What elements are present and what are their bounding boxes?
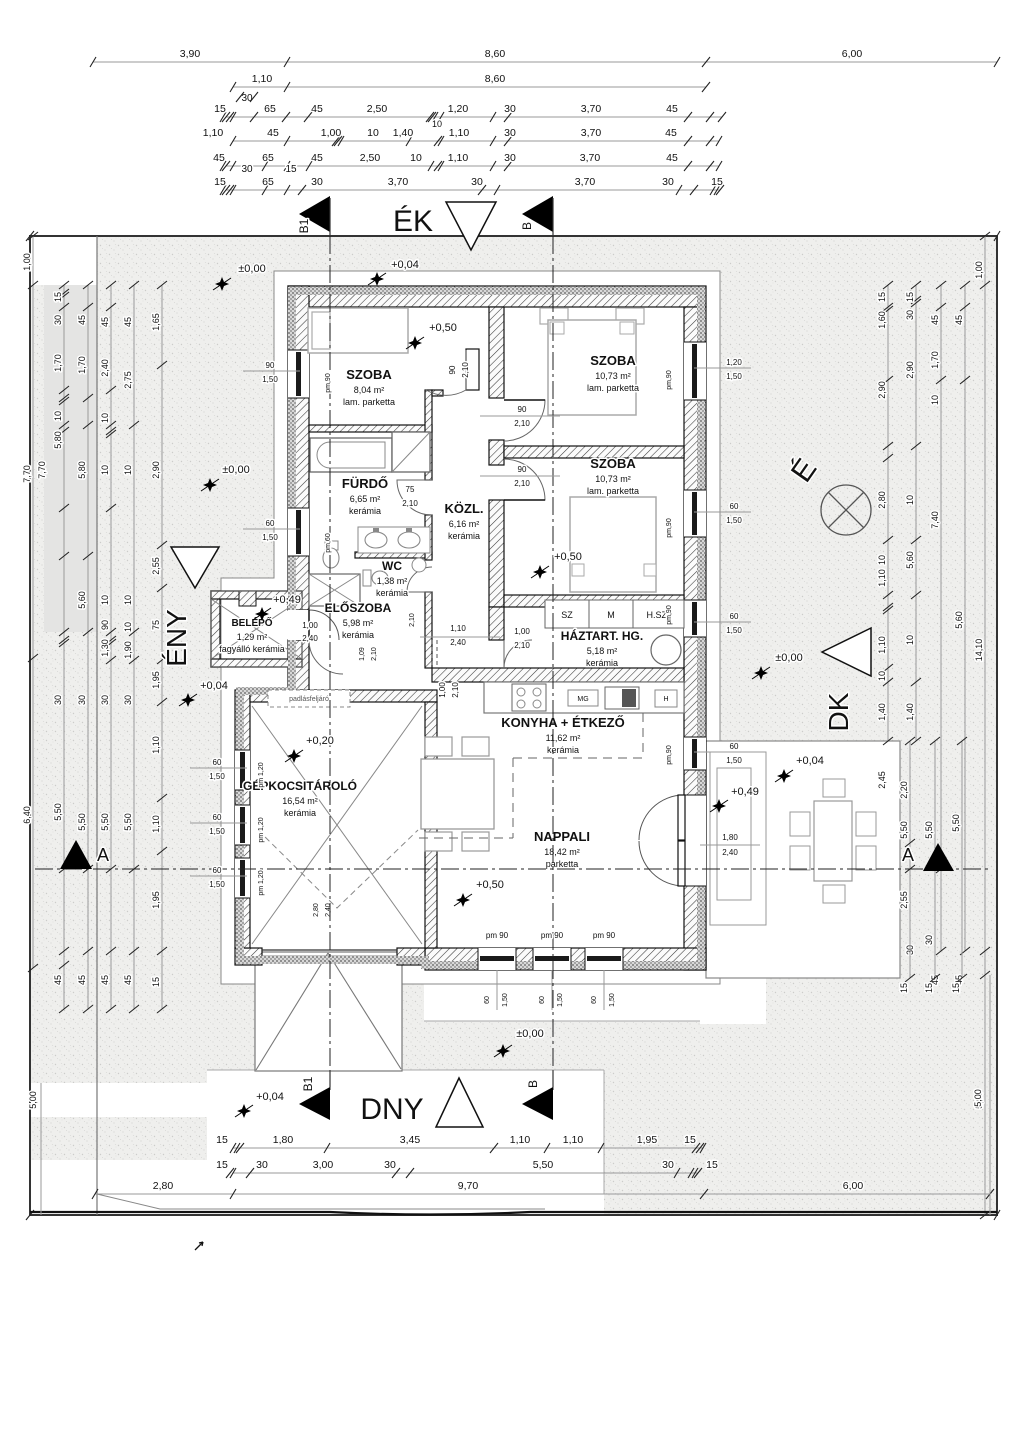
svg-text:65: 65 [262, 176, 274, 188]
MG box [568, 690, 598, 706]
window nappali 3 [585, 948, 623, 970]
svg-text:45: 45 [77, 975, 87, 985]
svg-text:8,60: 8,60 [485, 48, 506, 60]
svg-text:60: 60 [730, 612, 739, 621]
svg-text:2,50: 2,50 [367, 103, 388, 115]
boundary corner ticks [26, 231, 34, 241]
svg-text:2,10: 2,10 [461, 362, 470, 378]
garage cross [252, 706, 422, 944]
svg-text:pm 1,20: pm 1,20 [258, 762, 265, 787]
svg-text:10: 10 [100, 465, 110, 475]
svg-text:10: 10 [123, 595, 133, 605]
svg-text:DNY: DNY [360, 1093, 423, 1126]
svg-text:45: 45 [954, 315, 964, 325]
wall top exterior [288, 286, 706, 307]
terrace steps [710, 752, 766, 925]
svg-text:15: 15 [53, 292, 63, 302]
dining table [421, 759, 494, 829]
washbasins [358, 527, 430, 553]
svg-text:15: 15 [216, 1159, 228, 1171]
svg-text:15: 15 [214, 176, 226, 188]
svg-text:45: 45 [666, 152, 678, 164]
window nappali 2 [533, 948, 571, 970]
svg-text:A: A [97, 845, 109, 865]
svg-text:kerámia: kerámia [342, 630, 374, 640]
svg-text:15: 15 [214, 103, 226, 115]
svg-text:60: 60 [730, 502, 739, 511]
svg-text:45: 45 [665, 127, 677, 139]
svg-text:60: 60 [730, 742, 739, 751]
svg-text:15: 15 [899, 983, 909, 993]
svg-text:30: 30 [53, 695, 63, 705]
wall szoba2-szoba3 [504, 446, 684, 458]
svg-text:kerámia: kerámia [547, 745, 579, 755]
svg-text:+0,50: +0,50 [476, 879, 504, 891]
svg-text:±0,00: ±0,00 [516, 1028, 543, 1040]
flag B bottom [522, 1087, 553, 1120]
svg-text:8,04 m²: 8,04 m² [354, 385, 385, 395]
svg-text:90: 90 [448, 365, 457, 374]
svg-text:10: 10 [100, 595, 110, 605]
svg-text:2,40: 2,40 [325, 903, 332, 917]
site ground (stippled) [30, 236, 997, 1215]
svg-text:5,60: 5,60 [905, 551, 915, 569]
wall szoba3-haztart [504, 595, 684, 607]
shower [392, 432, 430, 472]
svg-text:1,70: 1,70 [77, 356, 87, 374]
svg-text:3,70: 3,70 [581, 127, 602, 139]
svg-text:2,40: 2,40 [302, 634, 318, 643]
terrace white area [706, 741, 900, 978]
section line A-A horizontal [35, 868, 990, 870]
svg-text:2,10: 2,10 [409, 613, 416, 627]
svg-text:B: B [526, 1080, 540, 1088]
ENY triangle [171, 547, 219, 588]
svg-text:30: 30 [241, 164, 253, 175]
svg-text:5,50: 5,50 [123, 813, 133, 831]
flag B1 bottom [299, 1087, 330, 1120]
svg-text:3,70: 3,70 [575, 176, 596, 188]
svg-text:2,80: 2,80 [153, 1180, 174, 1192]
svg-text:45: 45 [267, 127, 279, 139]
terrace dimension columns [909, 741, 911, 978]
svg-text:30: 30 [384, 1159, 396, 1171]
svg-text:pm,90: pm,90 [666, 605, 673, 625]
svg-text:+0,20: +0,20 [306, 735, 334, 747]
window garage 2 [235, 805, 250, 845]
svg-text:pm 90: pm 90 [541, 931, 564, 940]
svg-text:1,70: 1,70 [53, 354, 63, 372]
svg-text:±0,00: ±0,00 [222, 464, 249, 476]
svg-text:3,70: 3,70 [581, 103, 602, 115]
svg-text:8,60: 8,60 [485, 73, 506, 85]
svg-text:1,95: 1,95 [637, 1134, 658, 1146]
window garage 1 [235, 750, 250, 790]
svg-text:ELŐSZOBA: ELŐSZOBA [325, 600, 392, 615]
window szoba3 right 1 [684, 490, 706, 537]
svg-text:+0,50: +0,50 [554, 551, 582, 563]
svg-text:lam. parketta: lam. parketta [343, 397, 395, 407]
wall furdo-wc [355, 552, 432, 558]
svg-text:SZOBA: SZOBA [590, 353, 636, 368]
svg-text:+0,50: +0,50 [429, 322, 457, 334]
svg-text:2,90: 2,90 [877, 381, 887, 399]
svg-text:5,18 m²: 5,18 m² [587, 646, 618, 656]
svg-text:7,70: 7,70 [22, 465, 32, 483]
door szoba2 [504, 400, 545, 441]
svg-text:2,10: 2,10 [514, 479, 530, 488]
svg-text:90: 90 [518, 405, 527, 414]
svg-text:kerámia: kerámia [349, 506, 381, 516]
svg-text:6,00: 6,00 [843, 1180, 864, 1192]
svg-text:2,90: 2,90 [905, 361, 915, 379]
svg-text:60: 60 [213, 758, 222, 767]
svg-text:10: 10 [100, 413, 110, 423]
kitchen counter [484, 682, 684, 713]
terrace door opening [684, 795, 706, 886]
window nappali 1 [478, 948, 516, 970]
svg-text:2,55: 2,55 [151, 557, 161, 575]
terrace table [814, 801, 852, 881]
driveway outline [255, 952, 402, 1071]
svg-text:1,00: 1,00 [438, 682, 447, 698]
svg-text:2,80: 2,80 [313, 903, 320, 917]
svg-text:pm 90: pm 90 [593, 931, 616, 940]
svg-text:15: 15 [216, 1134, 228, 1146]
window dim labels left [243, 370, 300, 372]
svg-text:SZOBA: SZOBA [346, 367, 392, 382]
svg-text:15: 15 [877, 292, 887, 302]
svg-text:2,10: 2,10 [451, 682, 460, 698]
svg-text:pm,60: pm,60 [325, 533, 332, 553]
svg-text:15: 15 [924, 983, 934, 993]
svg-text:1,65: 1,65 [151, 313, 161, 331]
svg-text:30: 30 [905, 310, 915, 320]
belepo wall left [211, 591, 220, 667]
roof overhang outline / building white background [221, 271, 720, 984]
svg-text:45: 45 [123, 975, 133, 985]
wall left below entry door [288, 640, 309, 690]
svg-text:M: M [607, 610, 615, 620]
svg-text:1,00: 1,00 [302, 621, 318, 630]
wall bottom exterior living [425, 948, 706, 970]
svg-text:pm 1,20: pm 1,20 [258, 870, 265, 895]
closet X eloszoba [309, 574, 360, 606]
svg-text:parketta: parketta [546, 859, 579, 869]
wall left exterior upper [288, 286, 309, 610]
svg-text:SZ: SZ [561, 610, 573, 620]
padlasfeljaro [268, 690, 350, 707]
svg-text:ÉNY: ÉNY [161, 609, 192, 667]
svg-text:1,40: 1,40 [877, 703, 887, 721]
svg-text:pm,90: pm,90 [666, 518, 673, 538]
svg-text:90: 90 [518, 465, 527, 474]
wall garage top [250, 690, 437, 702]
svg-text:1,95: 1,95 [151, 891, 161, 909]
svg-text:30: 30 [256, 1159, 268, 1171]
svg-text:75: 75 [406, 485, 415, 494]
svg-text:5,98 m²: 5,98 m² [343, 618, 374, 628]
wall kitchen top [432, 668, 684, 682]
svg-text:B: B [520, 222, 534, 230]
wall szoba1-furdo [309, 425, 432, 432]
svg-text:10: 10 [367, 127, 379, 139]
left dimension columns [32, 236, 34, 968]
svg-text:18,42 m²: 18,42 m² [544, 847, 580, 857]
svg-text:7,40: 7,40 [930, 511, 940, 529]
wall stub szoba1 door [432, 390, 443, 396]
svg-text:11,62 m²: 11,62 m² [546, 733, 581, 743]
svg-text:5,80: 5,80 [77, 461, 87, 479]
svg-text:6,00: 6,00 [842, 48, 863, 60]
svg-text:30: 30 [100, 695, 110, 705]
svg-text:30: 30 [311, 176, 323, 188]
small north tick bottom-left [195, 1242, 203, 1250]
washing machine [651, 635, 681, 665]
belepo steps X [211, 599, 302, 659]
svg-text:1,50: 1,50 [726, 372, 742, 381]
svg-text:NAPPALI: NAPPALI [534, 829, 590, 844]
stove [512, 684, 546, 711]
svg-text:+0,04: +0,04 [796, 755, 824, 767]
DK triangle [822, 628, 871, 676]
svg-text:2,20: 2,20 [899, 781, 909, 799]
svg-text:1,40: 1,40 [905, 703, 915, 721]
A section left [60, 840, 92, 869]
svg-text:SZOBA: SZOBA [590, 456, 636, 471]
svg-text:KÖZL.: KÖZL. [445, 501, 484, 516]
svg-text:2,45: 2,45 [877, 771, 887, 789]
section line B1 vertical (over furniture) [329, 236, 331, 1087]
svg-text:1,10: 1,10 [252, 73, 273, 85]
svg-text:±0,00: ±0,00 [238, 263, 265, 275]
window szoba2 right [684, 342, 706, 400]
svg-text:6,16 m²: 6,16 m² [449, 519, 480, 529]
insulation band on exterior walls [240, 291, 701, 965]
window szoba1 left [288, 350, 309, 398]
bed szoba2 [540, 308, 568, 324]
section line B vertical (over furniture) [552, 236, 554, 1087]
door furdo [397, 480, 432, 515]
bed szoba1 [308, 308, 408, 353]
svg-text:16,54 m²: 16,54 m² [282, 796, 318, 806]
sink [605, 687, 639, 709]
svg-text:9,70: 9,70 [458, 1180, 479, 1192]
ground line bottom [30, 1212, 997, 1215]
svg-text:1,50: 1,50 [726, 516, 742, 525]
E compass [821, 485, 871, 535]
svg-text:10: 10 [432, 119, 442, 129]
svg-text:+0,49: +0,49 [731, 786, 759, 798]
wall bottom garage left pier [235, 948, 262, 965]
svg-text:pm,90: pm,90 [325, 373, 332, 393]
wall bottom garage right pier [397, 948, 425, 965]
svg-text:1,95: 1,95 [151, 671, 161, 689]
svg-text:pm,90: pm,90 [666, 370, 673, 390]
svg-text:30: 30 [924, 935, 934, 945]
kitchen zone dashed [419, 713, 643, 838]
svg-text:pm,90: pm,90 [666, 745, 673, 765]
window kitchen right [684, 737, 706, 770]
svg-text:60: 60 [213, 813, 222, 822]
svg-text:BELÉPŐ: BELÉPŐ [231, 616, 272, 629]
section line B vertical [552, 236, 554, 1090]
svg-text:5,50: 5,50 [533, 1159, 554, 1171]
svg-text:30: 30 [504, 127, 516, 139]
bottom dimension rows [233, 1147, 703, 1149]
svg-text:10,73 m²: 10,73 m² [595, 474, 631, 484]
svg-text:60: 60 [539, 996, 546, 1004]
svg-text:5,50: 5,50 [77, 813, 87, 831]
svg-text:30: 30 [504, 152, 516, 164]
svg-text:padlásfeljáró: padlásfeljáró [289, 696, 329, 703]
svg-text:1,00: 1,00 [321, 127, 342, 139]
svg-text:1,10: 1,10 [450, 624, 466, 633]
svg-text:3,45: 3,45 [400, 1134, 421, 1146]
svg-text:1,20: 1,20 [448, 103, 469, 115]
svg-text:1,80: 1,80 [722, 833, 738, 842]
svg-text:1,50: 1,50 [502, 993, 509, 1007]
svg-text:6,65 m²: 6,65 m² [350, 494, 381, 504]
svg-text:1,70: 1,70 [930, 351, 940, 369]
svg-text:MG: MG [577, 696, 588, 703]
site boundary [30, 236, 997, 1215]
svg-text:5,00: 5,00 [973, 1089, 983, 1107]
left setback gray band [44, 285, 97, 632]
bed szoba3 [570, 497, 656, 592]
svg-text:B1: B1 [301, 1076, 315, 1091]
svg-text:90: 90 [266, 361, 275, 370]
svg-text:+0,04: +0,04 [200, 680, 228, 692]
svg-text:1,00: 1,00 [514, 627, 530, 636]
svg-text:65: 65 [264, 103, 276, 115]
svg-text:1,00: 1,00 [974, 261, 984, 279]
svg-text:kerámia: kerámia [284, 808, 316, 818]
svg-text:2,80: 2,80 [877, 491, 887, 509]
svg-text:pm 90: pm 90 [486, 931, 509, 940]
svg-text:60: 60 [213, 866, 222, 875]
svg-text:15: 15 [684, 1134, 696, 1146]
svg-text:+0,04: +0,04 [256, 1091, 284, 1103]
svg-text:1,50: 1,50 [262, 533, 278, 542]
wall corridor left mid [425, 515, 432, 560]
section line A-A horizontal (over furniture) [35, 868, 990, 870]
svg-text:lam. parketta: lam. parketta [587, 486, 639, 496]
svg-text:60: 60 [591, 996, 598, 1004]
wall corridor left lower [425, 592, 432, 668]
belepo dark block [239, 591, 256, 606]
svg-text:2,75: 2,75 [123, 371, 133, 389]
svg-text:45: 45 [53, 975, 63, 985]
toilet wc [363, 570, 371, 586]
svg-text:30: 30 [241, 93, 253, 104]
svg-text:10: 10 [53, 411, 63, 421]
svg-text:10: 10 [410, 152, 422, 164]
white cutouts [30, 236, 97, 285]
svg-text:1,09: 1,09 [359, 647, 366, 661]
svg-text:WC: WC [382, 559, 402, 573]
svg-text:1,10: 1,10 [449, 127, 470, 139]
svg-text:1,38 m²: 1,38 m² [377, 576, 408, 586]
door szoba1 [466, 349, 479, 390]
svg-text:1,50: 1,50 [262, 375, 278, 384]
wall corridor right mid [489, 440, 504, 465]
svg-text:45: 45 [311, 152, 323, 164]
svg-text:2,90: 2,90 [151, 461, 161, 479]
svg-text:60: 60 [484, 996, 491, 1004]
svg-text:1,60: 1,60 [877, 311, 887, 329]
svg-text:3,00: 3,00 [313, 1159, 334, 1171]
svg-text:kerámia: kerámia [448, 531, 480, 541]
svg-text:5,50: 5,50 [924, 821, 934, 839]
svg-text:kerámia: kerámia [586, 658, 618, 668]
wall right exterior [684, 307, 706, 970]
svg-text:B1: B1 [297, 218, 311, 233]
section line B1 vertical [329, 236, 331, 1090]
entry door opening [288, 610, 309, 640]
svg-text:ÉK: ÉK [393, 205, 433, 238]
svg-text:10: 10 [905, 495, 915, 505]
svg-text:1,40: 1,40 [393, 127, 414, 139]
svg-text:1,10: 1,10 [877, 636, 887, 654]
top dimension chain rows [93, 61, 997, 63]
svg-text:1,50: 1,50 [209, 827, 225, 836]
svg-text:10: 10 [877, 555, 887, 565]
svg-text:1,30: 1,30 [100, 639, 110, 657]
wall corridor left upper [425, 390, 432, 480]
svg-text:1,10: 1,10 [563, 1134, 584, 1146]
svg-text:1,10: 1,10 [151, 736, 161, 754]
svg-text:kerámia: kerámia [376, 588, 408, 598]
window dim labels right [694, 367, 751, 369]
svg-text:fagyálló kerámia: fagyálló kerámia [219, 644, 285, 654]
sz/m/hsz boxes [545, 600, 589, 628]
svg-text:5,60: 5,60 [954, 611, 964, 629]
svg-text:FÜRDŐ: FÜRDŐ [342, 476, 388, 491]
svg-text:1,80: 1,80 [273, 1134, 294, 1146]
svg-text:30: 30 [504, 103, 516, 115]
svg-text:45: 45 [311, 103, 323, 115]
svg-text:2,40: 2,40 [450, 638, 466, 647]
svg-text:lam. parketta: lam. parketta [587, 383, 639, 393]
svg-text:1,20: 1,20 [726, 358, 742, 367]
door szoba3 [504, 459, 545, 500]
svg-text:3,70: 3,70 [580, 152, 601, 164]
svg-text:90: 90 [100, 620, 110, 630]
svg-text:15: 15 [285, 164, 297, 175]
svg-text:45: 45 [930, 315, 940, 325]
svg-text:KONYHA + ÉTKEZŐ: KONYHA + ÉTKEZŐ [501, 715, 624, 730]
window szoba3 right 2 [684, 600, 706, 637]
svg-text:45: 45 [666, 103, 678, 115]
svg-text:5,50: 5,50 [100, 813, 110, 831]
svg-text:2,10: 2,10 [402, 499, 418, 508]
belepo wall top [211, 591, 302, 599]
wall garage right [425, 702, 437, 948]
svg-text:1,29 m²: 1,29 m² [237, 632, 268, 642]
door kitchen from eloszoba [431, 640, 433, 668]
wall garage left [235, 690, 250, 948]
svg-text:A: A [902, 845, 914, 865]
svg-text:HÁZTART. HG.: HÁZTART. HG. [561, 628, 643, 643]
garage door threshold [262, 949, 397, 951]
terrace double door arcs [639, 795, 684, 840]
wall corridor right lower [489, 500, 504, 607]
svg-text:pm 1,20: pm 1,20 [258, 817, 265, 842]
svg-text:+0,49: +0,49 [273, 594, 301, 606]
svg-text:5,00: 5,00 [28, 1091, 38, 1109]
svg-text:30: 30 [662, 176, 674, 188]
